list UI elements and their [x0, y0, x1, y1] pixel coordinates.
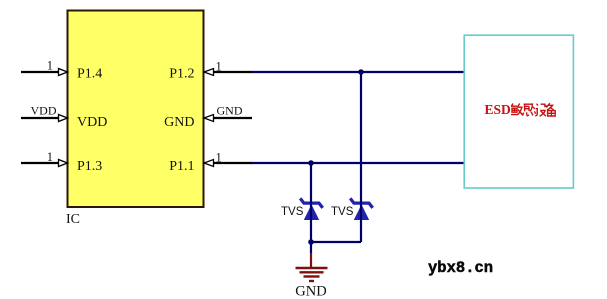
wire pin P1.1 stub [214, 162, 253, 164]
ground symbol bar 1 [296, 267, 328, 269]
pin P1.4 arrowhead [59, 69, 68, 76]
pin GND arrowhead [204, 115, 214, 122]
svg-text:VDD: VDD [77, 115, 107, 130]
junction node B (P1.1 net to D1) [308, 160, 314, 166]
wire P1.1 to ESD device [251, 162, 464, 164]
svg-text:1: 1 [47, 59, 53, 73]
ground symbol stem (lower) [310, 253, 312, 267]
junction node C (ground junction) [308, 239, 314, 245]
svg-text:GND: GND [164, 115, 194, 130]
junction node A (P1.2 net to D2) [358, 69, 364, 75]
svg-text:TVS: TVS [331, 206, 354, 218]
wire pin P1.4 stub [21, 71, 59, 73]
wire pin P1.2 stub [214, 71, 253, 73]
ESD device label: Chinese char 设 [535, 104, 547, 117]
pin P1.2 arrowhead [204, 69, 214, 76]
IC U1 body [68, 11, 204, 208]
wire GND stub [214, 117, 253, 119]
svg-text:P1.1: P1.1 [169, 159, 194, 174]
wire node A down through D2 [360, 72, 362, 242]
svg-text:1: 1 [47, 150, 53, 164]
svg-text:P1.4: P1.4 [77, 67, 102, 82]
ground symbol stem (upper) [310, 242, 312, 253]
TVS diode D1 (zener bar) [300, 198, 323, 208]
svg-text:P1.3: P1.3 [77, 159, 102, 174]
svg-text:ESD: ESD [485, 102, 512, 117]
pin P1.1 arrowhead [204, 160, 214, 167]
ground symbol bar 4 [309, 280, 314, 282]
wire node B down through D1 to node C [310, 163, 312, 242]
svg-text:IC: IC [66, 212, 80, 227]
ESD sensitive device box [464, 35, 573, 188]
pin VDD arrowhead [59, 115, 68, 122]
svg-text:VDD: VDD [31, 104, 57, 118]
wire bottom join D1-D2 [311, 241, 361, 243]
wire pin VDD stub [21, 117, 59, 119]
ESD device label: Chinese char 敏 [511, 104, 523, 116]
TVS diode D2 (triangle) [354, 205, 369, 221]
TVS diode D1 (triangle) [304, 205, 319, 221]
ESD device label: Chinese char 感 [523, 103, 536, 116]
ESD device label: Chinese char 备 [547, 103, 556, 116]
wire P1.2 to ESD device [251, 71, 464, 73]
svg-text:P1.2: P1.2 [169, 67, 194, 82]
svg-text:TVS: TVS [281, 206, 304, 218]
wire pin P1.3 stub [21, 162, 59, 164]
TVS diode D2 (zener bar) [350, 198, 373, 208]
svg-text:GND: GND [217, 104, 243, 118]
ground symbol bar 2 [300, 271, 324, 273]
pin P1.3 arrowhead [59, 160, 68, 167]
svg-text:ybx8.cn: ybx8.cn [428, 259, 493, 277]
svg-text:GND: GND [295, 284, 326, 299]
ground symbol bar 3 [304, 275, 320, 277]
